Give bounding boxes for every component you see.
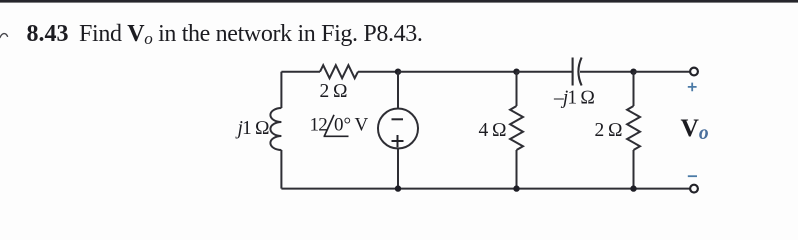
svg-text:j1 Ω: j1 Ω xyxy=(235,118,269,139)
resistor R1 2 ohm (top rail) xyxy=(320,65,358,78)
wire: 4-ohm branch, R2 down to bottom rail xyxy=(516,150,518,189)
wire: bottom rail xyxy=(281,188,689,190)
wire: source branch, node A down to source V1 xyxy=(397,72,399,109)
node D: bottom junction of source branch xyxy=(395,185,401,191)
wire: left rail above inductor L1 xyxy=(280,72,282,108)
polarity label - at output xyxy=(688,175,697,177)
output terminal + (open circle) xyxy=(690,68,698,76)
node F: bottom junction of 2-ohm branch xyxy=(630,185,636,191)
capacitor C1, -j1 ohm: right curved plate xyxy=(578,58,581,86)
inductor L1 j1 ohm (left branch coil) xyxy=(270,108,281,150)
capacitor C1, -j1 ohm: left plate xyxy=(572,58,574,86)
svg-text:V: V xyxy=(355,115,369,136)
wire: source branch, V1 down to bottom rail xyxy=(397,149,399,189)
polarity label + at output xyxy=(688,83,697,92)
angle underline of V1 label xyxy=(324,135,349,137)
wire: top rail, left corner to resistor R1 xyxy=(281,71,320,73)
node A: junction of R1 and source branch xyxy=(395,69,401,75)
svg-text:0°: 0° xyxy=(334,115,351,136)
source polarity plus (inside bottom of V1) xyxy=(392,135,404,147)
resistor R2 4 ohm (middle branch) xyxy=(510,106,523,150)
wire: top rail, node B to capacitor C1 xyxy=(517,71,573,73)
wire: top rail, R1 to node A xyxy=(358,71,398,73)
wire: 4-ohm branch, node B down to resistor R2 xyxy=(516,72,518,106)
svg-text:Find Vo in the network in Fig.: Find Vo in the network in Fig. P8.43. xyxy=(79,21,423,48)
output terminal - (open circle) xyxy=(690,185,698,193)
top rule of page xyxy=(0,0,798,3)
resistor R3 2 ohm (right branch) xyxy=(627,106,640,150)
wire: top rail, node C to output terminal xyxy=(634,71,690,73)
wire: left rail below inductor L1 xyxy=(280,150,282,189)
svg-text:12: 12 xyxy=(310,115,328,136)
node C: junction of top rail and 2-ohm branch xyxy=(630,69,636,75)
wire: 2-ohm branch, R3 down to bottom rail xyxy=(633,150,635,189)
svg-text:4 Ω: 4 Ω xyxy=(479,120,507,141)
stray pen mark at left margin xyxy=(0,34,8,38)
svg-text:–j1 Ω: –j1 Ω xyxy=(553,88,594,109)
svg-text:2 Ω: 2 Ω xyxy=(595,120,623,141)
node B: junction of top rail and 4-ohm branch xyxy=(513,69,519,75)
voltage source V1 12/0 V (circle) xyxy=(378,109,418,149)
wire: top rail, capacitor C1 to node C xyxy=(580,71,634,73)
wire: 2-ohm branch, node C down to resistor R3 xyxy=(633,72,635,106)
node E: bottom junction of 4-ohm branch xyxy=(513,185,519,191)
svg-text:Vo: Vo xyxy=(681,113,709,144)
source polarity minus (inside top of V1) xyxy=(392,118,404,120)
svg-text:2 Ω: 2 Ω xyxy=(320,81,348,102)
svg-text:8.43: 8.43 xyxy=(27,21,69,47)
wire: top rail, node A to node B xyxy=(398,71,517,73)
angle symbol slash of V1 label xyxy=(325,115,335,136)
